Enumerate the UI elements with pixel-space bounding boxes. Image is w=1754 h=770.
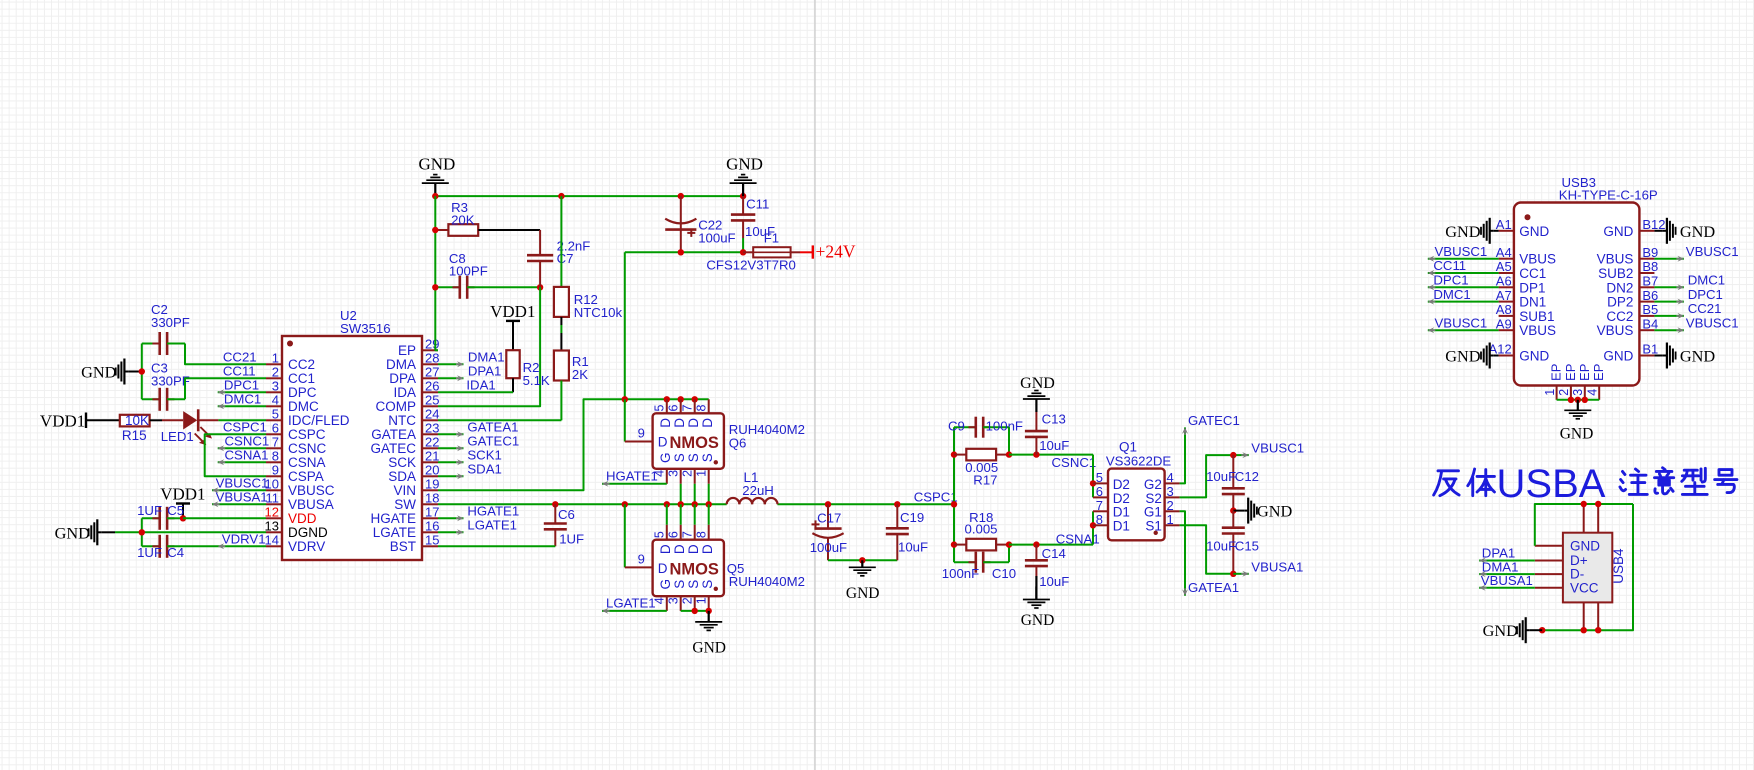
junction C12/C15 [1230, 507, 1236, 513]
svg-text:C4: C4 [167, 545, 184, 560]
svg-text:B9: B9 [1642, 245, 1658, 260]
wire net DPC1 [218, 391, 266, 393]
svg-text:26: 26 [425, 378, 439, 393]
svg-text:4: 4 [272, 392, 279, 407]
svg-text:CC11: CC11 [1433, 258, 1466, 273]
svg-text:12: 12 [265, 504, 279, 519]
svg-text:330PF: 330PF [151, 315, 190, 330]
svg-text:8: 8 [1096, 512, 1103, 527]
svg-text:CC1: CC1 [288, 371, 315, 386]
svg-text:1UF: 1UF [137, 545, 162, 560]
svg-text:G1: G1 [1144, 505, 1162, 520]
svg-text:GATEA1: GATEA1 [1188, 580, 1239, 595]
svg-text:VS3622DE: VS3622DE [1106, 454, 1171, 469]
wire net DPA1 [438, 377, 464, 379]
svg-text:3: 3 [666, 597, 680, 604]
svg-text:7: 7 [680, 404, 694, 411]
ground GND (C14) [1035, 587, 1037, 600]
svg-text:5: 5 [652, 404, 666, 411]
capacitor C13 10uF [1035, 412, 1037, 431]
svg-text:NTC10k: NTC10k [574, 305, 623, 320]
wire net CSNA1 row [1009, 544, 1093, 546]
svg-text:100uF: 100uF [698, 231, 735, 246]
svg-text:C13: C13 [1042, 412, 1066, 427]
capacitor C4 1UF [142, 545, 160, 547]
Q6 top pins 5-8 [666, 399, 668, 413]
svg-text:C15: C15 [1235, 539, 1259, 554]
Q5 pin 9 [624, 504, 626, 567]
svg-text:GND: GND [418, 154, 455, 173]
svg-text:DPA1: DPA1 [468, 363, 501, 378]
wire net SCK1 [438, 461, 464, 463]
svg-text:G: G [658, 579, 673, 590]
svg-text:D: D [658, 544, 673, 554]
svg-text:BST: BST [390, 539, 416, 554]
svg-text:DMC1: DMC1 [1433, 287, 1470, 302]
junction C13 [1033, 451, 1039, 457]
svg-text:GND: GND [1021, 612, 1055, 629]
svg-text:B4: B4 [1642, 316, 1658, 331]
junction GND row [139, 529, 145, 535]
svg-text:CSPC: CSPC [288, 427, 326, 442]
svg-text:A4: A4 [1496, 245, 1512, 260]
svg-text:CSNC: CSNC [288, 441, 327, 456]
svg-text:8: 8 [272, 448, 279, 463]
capacitor C8 100PF [435, 286, 460, 288]
svg-text:13: 13 [265, 518, 279, 533]
svg-text:S: S [700, 453, 715, 462]
svg-text:A12: A12 [1489, 342, 1512, 357]
wire net DMA1 (USB4) [1479, 573, 1535, 575]
connector USB3 KH-TYPE-C-16P body [1514, 203, 1640, 386]
svg-text:SDA1: SDA1 [467, 461, 501, 476]
junction Q5 source [692, 608, 698, 614]
svg-text:4: 4 [1167, 470, 1174, 485]
svg-text:1UF: 1UF [559, 532, 584, 547]
wire LED1 to pin5 IDC/FLED [218, 419, 266, 421]
capacitor C12 10uF [1232, 455, 1234, 488]
svg-text:B7: B7 [1642, 274, 1658, 289]
wire net SDA1 [438, 475, 464, 477]
wire CSNC1 to Q1 D2 pins [1092, 455, 1094, 498]
svg-text:DMC: DMC [288, 399, 319, 414]
svg-text:CFS12V3T7R0: CFS12V3T7R0 [706, 258, 795, 273]
wire C17/C19 gnd row [828, 559, 897, 561]
wire net DPC1 (A6) [1428, 286, 1499, 288]
svg-text:C6: C6 [558, 507, 575, 522]
svg-text:28: 28 [425, 350, 439, 365]
wire net LGATE1 (U2) [438, 531, 464, 533]
junction EP [1568, 397, 1574, 403]
svg-text:0.005: 0.005 [965, 522, 998, 537]
LED1 emission arrows [200, 427, 209, 436]
svg-text:VDD1: VDD1 [490, 302, 535, 321]
svg-text:IDA1: IDA1 [466, 377, 495, 392]
svg-text:4: 4 [1585, 389, 1599, 396]
svg-text:GND: GND [1603, 224, 1633, 239]
capacitor C3 330PF [142, 398, 160, 400]
svg-text:GATEC1: GATEC1 [467, 433, 519, 448]
svg-text:23: 23 [425, 420, 439, 435]
svg-text:C17: C17 [817, 511, 841, 526]
svg-text:LGATE1: LGATE1 [606, 595, 656, 610]
svg-text:VBUSA1: VBUSA1 [216, 489, 268, 504]
svg-text:DMC1: DMC1 [224, 391, 261, 406]
wire net GATEC1 (U2) [438, 447, 464, 449]
wire C10/R18 right vertical [1008, 545, 1010, 563]
wire SW row [438, 503, 727, 505]
svg-text:GND: GND [692, 640, 726, 657]
svg-text:KH-TYPE-C-16P: KH-TYPE-C-16P [1559, 188, 1658, 203]
svg-text:GND: GND [1680, 347, 1716, 366]
svg-text:GATEC1: GATEC1 [1188, 413, 1240, 428]
svg-text:17: 17 [425, 504, 439, 519]
junction C2/C3/GND [139, 368, 145, 374]
wire R15 to LED1 [150, 419, 162, 421]
LED LED1 [183, 411, 197, 429]
svg-text:5: 5 [272, 406, 279, 421]
wire net VBUSC1 (B4) [1654, 329, 1684, 331]
svg-text:3: 3 [666, 470, 680, 477]
resistor R18 0.005 [954, 544, 966, 546]
wire left vertical (GND to EP) [435, 196, 438, 350]
svg-text:D: D [672, 418, 687, 428]
wire red +24V [800, 251, 813, 253]
junction gnd row [859, 557, 865, 563]
svg-text:D: D [672, 544, 687, 554]
svg-text:A1: A1 [1496, 217, 1512, 232]
svg-text:29: 29 [425, 336, 439, 351]
svg-text:USB4: USB4 [1611, 548, 1626, 584]
svg-text:100PF: 100PF [449, 264, 488, 279]
ground flag GND (USB4) [1526, 629, 1530, 631]
wire USB4 top row [1584, 503, 1633, 505]
junction drain row [622, 396, 628, 402]
svg-text:C19: C19 [900, 510, 924, 525]
wire net VBUSC1 (A9) [1428, 329, 1499, 331]
ground GND (Q5 source) [708, 611, 710, 622]
wire CSNA1 to Q1 D1 pins [1092, 511, 1094, 544]
svg-text:NMOS: NMOS [669, 561, 719, 579]
svg-text:S: S [672, 580, 687, 589]
svg-text:GND: GND [846, 585, 880, 602]
note text: fan ti USBA zhu yi xing hao [1434, 471, 1459, 496]
transistor Q1 VS3622DE body [1108, 469, 1165, 541]
junction SW row [552, 501, 558, 507]
wire net CC21 (B5) [1654, 315, 1684, 317]
svg-text:EP: EP [1563, 364, 1578, 381]
svg-text:VBUSC1: VBUSC1 [1435, 315, 1488, 330]
junction C12 top [1230, 452, 1236, 458]
wire net DMA1 [438, 363, 464, 365]
wire sense left vertical [953, 427, 955, 562]
svg-text:6: 6 [666, 531, 680, 538]
svg-text:Q1: Q1 [1119, 440, 1137, 455]
resistor R3 20K [435, 229, 448, 231]
USB4 left stubs [1535, 545, 1563, 547]
svg-text:3: 3 [1167, 484, 1174, 499]
capacitor C7 2.2nF [539, 230, 541, 255]
svg-text:Q6: Q6 [729, 436, 747, 451]
svg-text:CSNC1: CSNC1 [225, 433, 270, 448]
svg-text:VDRV1: VDRV1 [222, 531, 266, 546]
svg-text:DPC1: DPC1 [224, 377, 259, 392]
svg-text:SW: SW [394, 497, 416, 512]
svg-text:S2: S2 [1145, 491, 1162, 506]
svg-text:A9: A9 [1496, 316, 1512, 331]
svg-text:VBUSC1: VBUSC1 [1686, 244, 1739, 259]
wire net DPA1 [1479, 560, 1535, 562]
svg-text:LGATE: LGATE [373, 525, 416, 540]
svg-text:D: D [658, 418, 673, 428]
svg-text:2: 2 [1167, 498, 1174, 513]
svg-text:CSNA: CSNA [288, 455, 326, 470]
junction Q1 pin5 [1090, 480, 1096, 486]
svg-text:27: 27 [425, 364, 439, 379]
svg-text:VBUSA1: VBUSA1 [1251, 559, 1303, 574]
svg-text:USBA: USBA [1497, 462, 1606, 506]
ground flag GND (USB3 B12) [1654, 230, 1663, 232]
svg-text:C12: C12 [1235, 469, 1259, 484]
svg-text:A5: A5 [1496, 259, 1512, 274]
junction Q1 pin8 [1090, 522, 1096, 528]
svg-text:20: 20 [425, 462, 439, 477]
svg-text:22uH: 22uH [742, 483, 774, 498]
wire net DMC1 [218, 405, 266, 407]
capacitor C9 100nF [954, 426, 976, 428]
ground flag GND (C2/C3) [124, 371, 128, 373]
svg-text:19: 19 [425, 476, 439, 491]
svg-text:DMA: DMA [386, 357, 416, 372]
Q1 right stubs [1165, 482, 1180, 484]
wire C9/R17 right vertical [1008, 427, 1010, 454]
svg-text:GND: GND [1020, 375, 1055, 392]
Q6 pin 9 [625, 441, 653, 443]
ground GND (C17/C19) [861, 560, 863, 567]
svg-text:D1: D1 [1113, 505, 1130, 520]
resistor R1 2K [554, 351, 569, 381]
wire net VBUSC1 (right) [1233, 454, 1249, 456]
Q5 top pins 5-8 [666, 525, 668, 540]
svg-text:DN1: DN1 [1519, 295, 1546, 310]
Q6 bottom pins 4-1 [666, 469, 668, 484]
wire net CSNC1 [218, 447, 266, 449]
svg-text:GATEC: GATEC [370, 441, 416, 456]
svg-text:25: 25 [425, 392, 439, 407]
svg-text:HGATE1: HGATE1 [606, 468, 658, 483]
svg-text:CSNA1: CSNA1 [225, 447, 269, 462]
svg-text:D2: D2 [1113, 477, 1130, 492]
svg-text:VBUS: VBUS [1519, 323, 1556, 338]
svg-text:HGATE: HGATE [370, 511, 416, 526]
wire USB4 GND pin up [1535, 504, 1584, 546]
svg-text:GND: GND [55, 523, 91, 542]
wire net DMC1 (A7) [1428, 301, 1499, 303]
svg-text:B8: B8 [1642, 259, 1658, 274]
svg-text:DPC1: DPC1 [1433, 273, 1468, 288]
USB4 top pins [1583, 504, 1585, 533]
svg-text:1: 1 [1167, 512, 1174, 527]
wire net VBUSC1 (B9) [1654, 258, 1684, 260]
svg-text:GND: GND [1519, 349, 1549, 364]
resistor R2 5.1K [506, 350, 519, 378]
svg-text:5: 5 [1096, 470, 1103, 485]
wire Q5 source tie [681, 610, 709, 612]
svg-text:IDC/FLED: IDC/FLED [288, 413, 350, 428]
wire USB4 right loop [1542, 504, 1633, 630]
svg-text:CC2: CC2 [1606, 309, 1633, 324]
svg-text:18: 18 [425, 490, 439, 505]
svg-text:EP: EP [1577, 364, 1592, 381]
IC U2 SW3516 body [282, 336, 422, 560]
svg-text:DPC: DPC [288, 385, 317, 400]
wire net CC11 [185, 378, 266, 399]
svg-text:DPC1: DPC1 [1688, 287, 1723, 302]
svg-text:GND: GND [1445, 347, 1481, 366]
svg-text:B1: B1 [1642, 342, 1658, 357]
USB3 left pins [1499, 230, 1514, 232]
wire R2 to IDA row [512, 378, 514, 392]
svg-text:GATEA: GATEA [371, 427, 416, 442]
svg-text:2: 2 [272, 364, 279, 379]
capacitor C10 100nF [954, 561, 976, 563]
svg-text:LED1: LED1 [161, 429, 194, 444]
ground flag GND (USB3 A1) [1490, 230, 1494, 232]
svg-text:24: 24 [425, 406, 439, 421]
svg-text:CC11: CC11 [223, 363, 256, 378]
svg-text:CSPC1: CSPC1 [223, 419, 267, 434]
svg-text:VBUS: VBUS [1597, 252, 1634, 267]
svg-text:1: 1 [1543, 389, 1557, 396]
svg-text:VDD: VDD [288, 511, 317, 526]
svg-text:VBUSA1: VBUSA1 [1481, 573, 1533, 588]
svg-text:SUB1: SUB1 [1519, 309, 1554, 324]
svg-text:IDA: IDA [393, 385, 416, 400]
svg-text:S1: S1 [1145, 519, 1162, 534]
junction C15 bottom [1230, 571, 1236, 577]
svg-text:21: 21 [425, 448, 439, 463]
resistor R12 NTC10k [560, 196, 562, 287]
svg-text:CC21: CC21 [223, 349, 257, 364]
svg-text:VDD1: VDD1 [40, 412, 85, 431]
svg-text:VBUS: VBUS [1597, 323, 1634, 338]
junction top row [432, 193, 438, 199]
capacitor C17 100uF (polarized) [827, 504, 829, 528]
svg-text:6: 6 [272, 420, 279, 435]
svg-text:D: D [700, 544, 715, 554]
svg-text:R15: R15 [122, 428, 147, 443]
svg-text:GND: GND [1445, 222, 1481, 241]
wire top GND row [435, 195, 743, 197]
junction C14 [1033, 541, 1039, 547]
svg-text:3: 3 [1571, 389, 1585, 396]
junction R3 left [432, 227, 438, 233]
svg-text:S: S [686, 580, 701, 589]
svg-text:EP: EP [1549, 364, 1564, 381]
svg-text:100nF: 100nF [942, 566, 979, 581]
Q5 bottom pins 4-1 [666, 596, 668, 611]
U2 right pins 29-15 stubs [422, 349, 438, 351]
svg-text:5: 5 [652, 531, 666, 538]
svg-text:10uF: 10uF [1206, 469, 1236, 484]
svg-text:VDRV: VDRV [288, 539, 325, 554]
capacitor C14 10uF [1035, 545, 1037, 561]
svg-text:5.1K: 5.1K [523, 373, 550, 388]
wire IDA1 row [438, 391, 513, 393]
svg-text:DMA1: DMA1 [468, 349, 505, 364]
svg-text:DP2: DP2 [1607, 295, 1633, 310]
USB3 bottom EP pins [1556, 386, 1558, 400]
svg-text:D2: D2 [1113, 491, 1130, 506]
svg-text:1: 1 [694, 597, 708, 604]
svg-text:7: 7 [680, 531, 694, 538]
svg-text:A6: A6 [1496, 274, 1512, 289]
svg-text:10uF: 10uF [1206, 539, 1236, 554]
svg-text:CSPC1: CSPC1 [914, 489, 958, 504]
svg-text:VBUSC1: VBUSC1 [1251, 441, 1304, 456]
junction USB4 bottom [1581, 627, 1587, 633]
svg-text:D: D [686, 544, 701, 554]
wire BST row [438, 545, 555, 547]
svg-text:D: D [686, 418, 701, 428]
ground flag GND (USB3 A12) [1490, 355, 1494, 357]
svg-text:GND: GND [81, 363, 117, 382]
svg-text:9: 9 [638, 552, 645, 567]
junction C8 row [432, 284, 438, 290]
junction +24V row [678, 249, 684, 255]
wire net GATEA1 [1180, 511, 1185, 596]
wire C2/C3 left vertical [141, 344, 143, 400]
svg-text:15: 15 [425, 532, 439, 547]
inductor L1 22uH [727, 498, 740, 504]
svg-text:DGND: DGND [288, 525, 328, 540]
svg-text:A8: A8 [1496, 302, 1512, 317]
svg-text:VIN: VIN [393, 483, 416, 498]
svg-text:SW3516: SW3516 [340, 321, 391, 336]
svg-text:9: 9 [272, 462, 279, 477]
junction USB4 top [1581, 501, 1587, 507]
svg-text:GND: GND [726, 154, 763, 173]
svg-text:G2: G2 [1144, 477, 1162, 492]
svg-text:GATEA1: GATEA1 [467, 419, 518, 434]
wire USB3 EP tie [1557, 399, 1600, 401]
ground GND (USB3 EP) [1577, 400, 1579, 411]
svg-text:VBUSC: VBUSC [288, 483, 335, 498]
svg-text:DPA: DPA [389, 371, 416, 386]
svg-text:C10: C10 [992, 566, 1016, 581]
svg-text:7: 7 [272, 434, 279, 449]
svg-text:DMC1: DMC1 [1688, 273, 1725, 288]
wire VDD row pin12 [183, 517, 266, 519]
svg-text:S: S [700, 580, 715, 589]
resistor R15 10K [120, 415, 150, 427]
svg-text:1: 1 [694, 470, 708, 477]
svg-text:8: 8 [694, 404, 708, 411]
wire DGND row pin13 [115, 531, 266, 533]
junction R17 right [1006, 451, 1012, 457]
wire net VBUSC1 [212, 489, 266, 491]
svg-text:LGATE1: LGATE1 [467, 517, 517, 532]
svg-text:GND: GND [1483, 621, 1519, 640]
wire F1 column to Q6 pin9 [624, 399, 626, 441]
svg-text:EP: EP [398, 343, 416, 358]
wire +24V row [625, 251, 743, 253]
wire net LGATE1 (Q5 gate) [602, 610, 667, 612]
svg-text:G: G [658, 453, 673, 464]
capacitor C2 330PF [142, 343, 160, 345]
USB3 right pins [1639, 230, 1654, 232]
svg-text:6: 6 [1096, 484, 1103, 499]
